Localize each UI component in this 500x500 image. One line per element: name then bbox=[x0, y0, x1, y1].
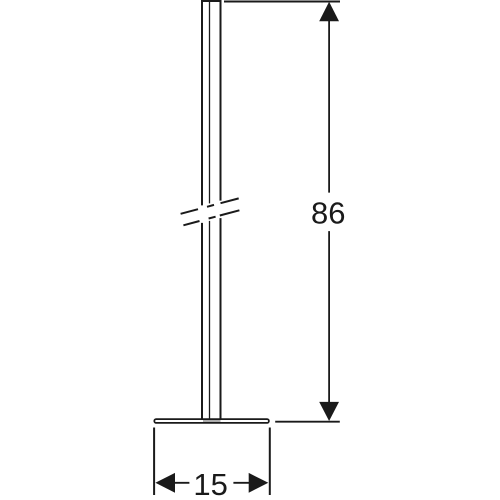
svg-text:86: 86 bbox=[311, 195, 345, 230]
svg-text:15: 15 bbox=[193, 467, 227, 500]
